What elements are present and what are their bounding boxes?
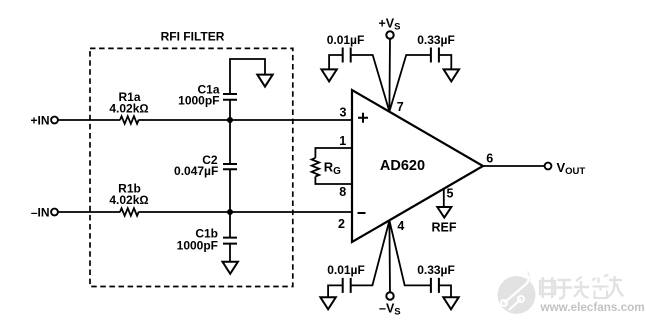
wire top-right bypass branch bbox=[389, 55, 451, 112]
ground (top-right bypass) bbox=[444, 69, 459, 81]
resistor RG bbox=[312, 158, 341, 177]
wire +IN to R1a bbox=[58, 119, 120, 121]
svg-text:www.elecfans.com: www.elecfans.com bbox=[540, 301, 645, 314]
wire -VS to pin 4 bbox=[388, 221, 391, 293]
capacitor C1a 1000pF bbox=[178, 83, 237, 108]
node junction on -IN wire bbox=[227, 209, 233, 215]
capacitor C1b 1000pF bbox=[177, 226, 237, 252]
wire R1b to pin 2 bbox=[138, 211, 352, 213]
svg-text:6: 6 bbox=[486, 152, 493, 166]
-VS supply terminal bbox=[379, 292, 401, 317]
svg-text:AD620: AD620 bbox=[380, 158, 425, 174]
wire pin 1 to RG bbox=[315, 148, 352, 158]
svg-text:1: 1 bbox=[339, 134, 346, 148]
RFI filter dashed box bbox=[90, 48, 293, 286]
wire node to C2 bbox=[229, 120, 231, 164]
op-amp U1 AD620 bbox=[352, 90, 483, 242]
wire pin 6 output bbox=[483, 165, 545, 167]
svg-text:0.01µF: 0.01µF bbox=[327, 263, 365, 277]
svg-text:REF: REF bbox=[432, 220, 457, 234]
wire pin 5 to REF bbox=[443, 189, 445, 207]
svg-text:RFI FILTER: RFI FILTER bbox=[161, 30, 225, 44]
plus symbol (pin 3 input) bbox=[358, 113, 368, 123]
svg-text:4.02kΩ: 4.02kΩ bbox=[109, 193, 148, 207]
wire C1a top hook bbox=[230, 59, 265, 94]
svg-text:3: 3 bbox=[340, 105, 347, 119]
bypass capacitor 0.33uF (bottom) bbox=[417, 263, 455, 293]
ground arrow REF bbox=[432, 207, 457, 234]
svg-text:+IN: +IN bbox=[30, 113, 49, 127]
wire C1b to ground bbox=[229, 244, 231, 262]
ground (bottom-right bypass) bbox=[443, 297, 458, 309]
ground (bottom-left bypass) bbox=[320, 297, 335, 309]
wire C2 to -IN node bbox=[229, 169, 231, 212]
wire bottom-left bypass branch bbox=[328, 221, 389, 298]
watermark text bbox=[540, 275, 645, 315]
ground (C1a) bbox=[257, 75, 272, 87]
svg-text:2: 2 bbox=[338, 217, 345, 231]
ground (top-left bypass) bbox=[321, 69, 336, 81]
output terminal VOUT bbox=[545, 160, 586, 177]
svg-text:4: 4 bbox=[397, 219, 404, 233]
input terminal -IN bbox=[31, 205, 58, 219]
wire -IN to R1b bbox=[58, 211, 120, 213]
svg-text:–IN: –IN bbox=[31, 205, 50, 219]
bypass capacitor 0.01uF (bottom) bbox=[327, 263, 365, 293]
svg-text:0.33µF: 0.33µF bbox=[417, 33, 455, 47]
svg-text:1000pF: 1000pF bbox=[177, 238, 218, 252]
svg-text:0.01µF: 0.01µF bbox=[327, 33, 365, 47]
svg-text:7: 7 bbox=[397, 100, 404, 114]
wire node to C1b bbox=[229, 212, 231, 238]
wire top-left bypass branch bbox=[329, 55, 389, 112]
resistor R1a bbox=[109, 90, 148, 124]
+VS supply terminal bbox=[379, 17, 401, 39]
input terminal +IN bbox=[30, 113, 57, 127]
svg-text:1000pF: 1000pF bbox=[178, 94, 219, 108]
wire R1a to pin 3 bbox=[138, 119, 352, 121]
svg-text:0.33µF: 0.33µF bbox=[417, 263, 455, 277]
wire bottom-right bypass branch bbox=[389, 221, 451, 298]
svg-text:0.047µF: 0.047µF bbox=[174, 164, 218, 178]
watermark logo bbox=[498, 270, 536, 314]
svg-text:5: 5 bbox=[447, 186, 454, 200]
minus symbol (pin 2 input) bbox=[358, 212, 366, 214]
svg-text:4.02kΩ: 4.02kΩ bbox=[109, 102, 148, 116]
bypass capacitor 0.01uF (top) bbox=[327, 33, 365, 63]
svg-text:8: 8 bbox=[339, 185, 346, 199]
wire RG to pin 8 bbox=[315, 177, 352, 185]
ground (C1b) bbox=[223, 262, 238, 274]
node junction on +IN wire bbox=[227, 117, 233, 123]
wire +VS to pin 7 bbox=[388, 39, 391, 112]
capacitor C2 0.047uF bbox=[174, 153, 237, 178]
resistor R1b bbox=[109, 182, 148, 216]
bypass capacitor 0.33uF (top) bbox=[417, 33, 455, 63]
wire C1a to +IN node bbox=[229, 100, 231, 120]
